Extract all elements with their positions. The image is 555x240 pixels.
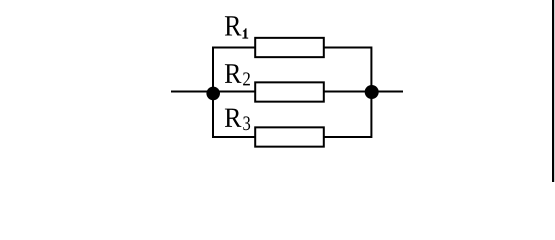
label R3 — [225, 109, 250, 131]
resistor R3 — [255, 127, 324, 146]
wire: main line right lead — [372, 91, 404, 93]
wire: main line left lead — [171, 91, 214, 93]
wire: R3 branch right riser — [324, 92, 372, 137]
label R2 — [225, 64, 250, 85]
node: right junction — [365, 85, 379, 99]
resistor R2 — [255, 82, 324, 101]
label R1 — [225, 16, 248, 38]
wire: R1 branch right riser — [324, 48, 372, 93]
wire: R3 branch left riser — [213, 92, 256, 137]
wire: left lead of R2 — [213, 91, 256, 93]
node: left junction — [206, 87, 220, 101]
wire: R1 branch left riser — [213, 48, 256, 93]
wire: right lead of R2 — [324, 91, 372, 93]
resistor R1 — [255, 38, 324, 57]
